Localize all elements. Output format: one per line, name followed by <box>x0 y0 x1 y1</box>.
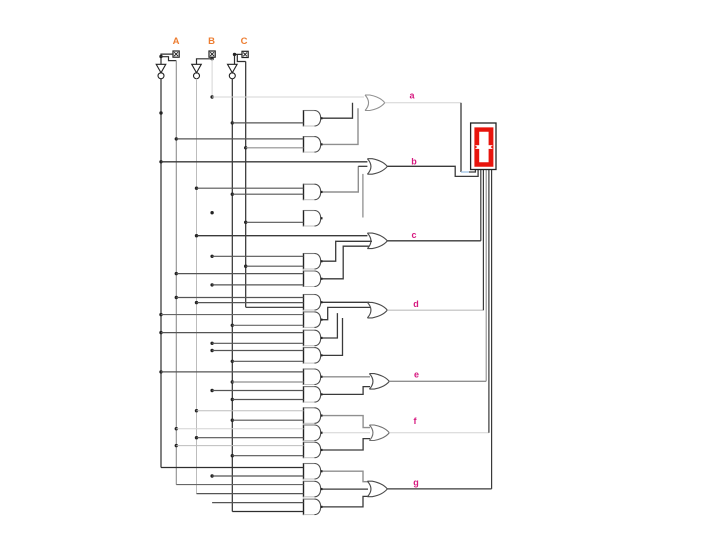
wire rail NOT-A <box>160 79 162 468</box>
AND gate U22 (segment g) <box>304 463 323 480</box>
wire NOT-B to AND10 input <box>197 302 304 304</box>
wire NOT-B to AND4 input <box>197 187 304 189</box>
wire NOT-A to AND12 input <box>161 332 304 334</box>
wire NOT-C to AND16 input <box>232 399 303 401</box>
inverter for A (NOT gate) <box>156 64 166 79</box>
wire AND1 output to OR-a <box>323 103 353 118</box>
junction NOT-C to AND20 <box>231 454 234 457</box>
OR gate U9 (segment c) <box>367 233 387 249</box>
AND gate U5 (segment b) <box>304 210 323 227</box>
junction A to AND20 <box>175 444 178 447</box>
wire OR-a route down to display pin a <box>460 103 462 172</box>
wire OR-f output to display <box>389 432 489 434</box>
junction NOT-B to AND19 <box>195 436 198 439</box>
wire B to AND13 input <box>212 350 303 352</box>
wire rail A <box>175 61 177 485</box>
wire NOT-A to OR-b input1 <box>161 161 367 163</box>
wire pin A to inverter branch <box>161 54 173 64</box>
OR gate U21 (segment f) <box>369 425 389 441</box>
AND gate U7 (segment c) <box>304 253 323 270</box>
junction A to AND8 <box>175 272 178 275</box>
AND gate U15 (segment e) <box>304 369 323 386</box>
wire NOT-B to AND19 input <box>197 437 304 439</box>
wire OR-b input3 stub <box>362 174 364 218</box>
wire OR-c output to display <box>387 240 481 242</box>
svg-text:f: f <box>414 416 418 426</box>
junction NOT-A to OR-b <box>159 160 162 163</box>
wire AND15 output to OR-e input1 <box>323 376 371 378</box>
junction NOT-B to AND10 <box>195 301 198 304</box>
wire NOT-C to AND4 input <box>232 193 303 195</box>
inverter for B (NOT gate) <box>192 64 202 79</box>
wire NOT-A rail corner to AND22 input <box>161 467 304 469</box>
junction B to OR-a <box>210 95 213 98</box>
wire to display pin a stub <box>469 170 475 173</box>
wire B to AND16 input <box>212 390 303 392</box>
wire blue segment to display pin a <box>461 171 469 173</box>
wire C to AND5 input <box>246 221 304 223</box>
wire A to AND20 input <box>176 445 303 447</box>
wire AND23 output to OR-g input2 <box>323 488 369 490</box>
AND gate U11 (segment d) <box>304 311 323 328</box>
wire AND20 output to OR-f input3 <box>323 439 371 450</box>
junction NOT-C to AND18 <box>231 419 234 422</box>
junction pin B <box>210 57 213 60</box>
OR gate U6 (segment b) <box>367 159 387 175</box>
wire C step to rail <box>237 54 245 61</box>
junction NOT-B to AND18 <box>195 409 198 412</box>
wire B to AND22 input <box>212 475 303 477</box>
junction NOT-B to AND4 <box>195 187 198 190</box>
junction B to AND22 <box>210 474 213 477</box>
wire OR-b output to display <box>387 166 478 176</box>
wire NOT-C to AND13 input <box>232 360 303 362</box>
wire OR-a output <box>385 102 461 104</box>
junction NOT-B to OR-c <box>195 234 198 237</box>
wire B to inverter <box>197 59 213 65</box>
junction NOT-C to AND15 <box>231 380 234 383</box>
AND gate U4 (segment b) <box>304 184 323 201</box>
wire rail C <box>245 62 247 308</box>
svg-text:d: d <box>413 299 419 309</box>
wire A rail corner to AND23 input <box>176 484 303 486</box>
wire A step to rail <box>161 57 176 61</box>
wire AND8 output to OR-c <box>323 246 370 279</box>
svg-text:a: a <box>409 91 415 101</box>
wire AND10 output to OR-d input1 <box>323 301 370 303</box>
wire A to AND8 input <box>176 273 303 275</box>
OR gate U25 (segment g) <box>367 481 387 497</box>
junction C to AND7 <box>244 265 247 268</box>
wire NOT-B to OR-c input1 <box>197 235 368 237</box>
wire NOT-C to AND18 input <box>232 419 303 421</box>
OR gate U14 (segment d) <box>367 302 387 318</box>
AND gate U19 (segment f) <box>304 425 323 442</box>
7-segment display DS1 showing digit 0 <box>471 123 496 170</box>
wire AND22 output to OR-g input1 <box>323 471 370 482</box>
wire display pin c vertical <box>480 170 482 241</box>
AND gate U16 (segment e) <box>304 386 323 403</box>
wire C rail corner to AND10 input <box>246 306 304 308</box>
wire AND11 output to OR-d input2 <box>323 307 371 319</box>
wire A to AND2 input <box>176 138 303 140</box>
wire B to AND7 input <box>212 255 303 257</box>
svg-text:g: g <box>413 478 419 488</box>
wire NOT-A to AND11 input <box>161 314 304 316</box>
input pin B <box>209 51 215 57</box>
wire display pin g vertical <box>491 170 493 489</box>
AND gate U12 (segment d) <box>304 330 323 347</box>
svg-text:C: C <box>241 36 248 47</box>
OR gate U3 (segment a) <box>365 95 385 111</box>
junction B to AND7 <box>210 255 213 258</box>
wire OR-e output to display <box>389 380 486 382</box>
wire B to AND24 input <box>212 502 303 504</box>
AND gate U18 (segment f) <box>304 407 323 424</box>
wire AND13 output to OR-d input4 <box>323 318 343 355</box>
AND gate U10 (segment d) <box>304 294 323 311</box>
AND gate U13 (segment d) <box>304 347 323 364</box>
wire display pin e vertical <box>485 170 487 382</box>
wire AND4 output to OR-b <box>323 166 359 192</box>
wire AND12 output to OR-d input3 <box>323 313 338 338</box>
junction NOT-C to AND1 <box>231 121 234 124</box>
junction A to AND10 <box>175 296 178 299</box>
junction pin A <box>159 55 162 58</box>
AND gate U8 (segment c) <box>304 271 323 288</box>
wire AND16 output to OR-e input2 <box>323 387 371 395</box>
node NOT-A at AND1 <box>159 111 162 114</box>
wire A to AND10 input <box>176 297 303 299</box>
junction NOT-A to AND11 <box>159 313 162 316</box>
svg-text:B: B <box>208 36 215 47</box>
wire rail NOT-C <box>231 79 233 512</box>
wire NOT-C rail corner to AND24 input <box>232 511 303 513</box>
junction pin C <box>233 53 236 56</box>
wire AND19 output to OR-f input2 <box>323 432 371 434</box>
junction A to AND19 <box>175 427 178 430</box>
junction NOT-C to AND13 <box>231 360 234 363</box>
junction NOT-C to AND16 <box>231 398 234 401</box>
wire pin B stub <box>211 57 213 59</box>
wire pin C to junction <box>235 54 243 64</box>
svg-text:c: c <box>411 230 416 240</box>
junction B to AND12 <box>210 342 213 345</box>
OR gate U17 (segment e) <box>369 374 389 390</box>
wire C to AND7 input <box>246 265 304 267</box>
svg-text:e: e <box>414 370 419 380</box>
wire OR-d output to display <box>387 309 483 311</box>
AND gate U2 (segment a) <box>304 136 323 153</box>
junction B to AND8 <box>210 283 213 286</box>
wire AND18 output to OR-f input1 <box>323 416 371 428</box>
junction A to AND2 <box>175 137 178 140</box>
wire NOT-A to AND15 input <box>161 371 304 373</box>
AND gate U24 (segment g) <box>304 499 323 515</box>
junction B to AND13 <box>210 349 213 352</box>
wire B rail upper <box>211 59 213 97</box>
wire AND2 output to OR-a <box>323 108 359 144</box>
junction NOT-A to AND15 <box>159 370 162 373</box>
wire into OR-b input2 <box>358 165 367 167</box>
input pin C <box>242 51 248 57</box>
input pin A <box>173 51 179 57</box>
svg-text:A: A <box>173 36 180 47</box>
svg-text:b: b <box>411 157 417 167</box>
wire NOT-B rail corner to AND23 input <box>197 493 304 495</box>
wire OR-g output to display <box>387 488 491 490</box>
wire B to AND8 input <box>212 284 303 286</box>
wire NOT-C to AND20 input <box>232 455 303 457</box>
wire rail NOT-B <box>196 79 198 494</box>
wire B to AND12 input <box>212 342 303 344</box>
wire A to AND19 input <box>176 428 303 430</box>
wire AND24 output to OR-g input3 <box>323 496 370 507</box>
wire NOT-C to AND15 input <box>232 381 303 383</box>
wire NOT-C to AND1 input <box>232 122 303 124</box>
AND gate U20 (segment f) <box>304 442 323 459</box>
wire C to AND2 input <box>246 147 304 149</box>
wire AND7 output to OR-c <box>323 241 373 261</box>
junction C to AND2 <box>244 146 247 149</box>
node B at AND5 <box>210 211 213 214</box>
AND gate U1 (segment a) <box>304 110 323 127</box>
wire NOT-B to AND18 input <box>197 410 304 412</box>
junction NOT-A to AND12 <box>159 331 162 334</box>
junction B to AND16 <box>210 389 213 392</box>
wire NOT-C to AND11 input <box>232 324 303 326</box>
junction C to AND5 <box>244 221 247 224</box>
wire B to OR-a input1 <box>212 96 364 98</box>
junction NOT-C to AND4 <box>231 193 234 196</box>
junction NOT-C to AND11 <box>231 324 234 327</box>
AND gate U23 (segment g) <box>304 481 323 498</box>
wire display pin d vertical <box>482 170 484 311</box>
inverter for C (NOT gate) <box>228 64 238 79</box>
wire display pin f vertical <box>488 170 490 433</box>
